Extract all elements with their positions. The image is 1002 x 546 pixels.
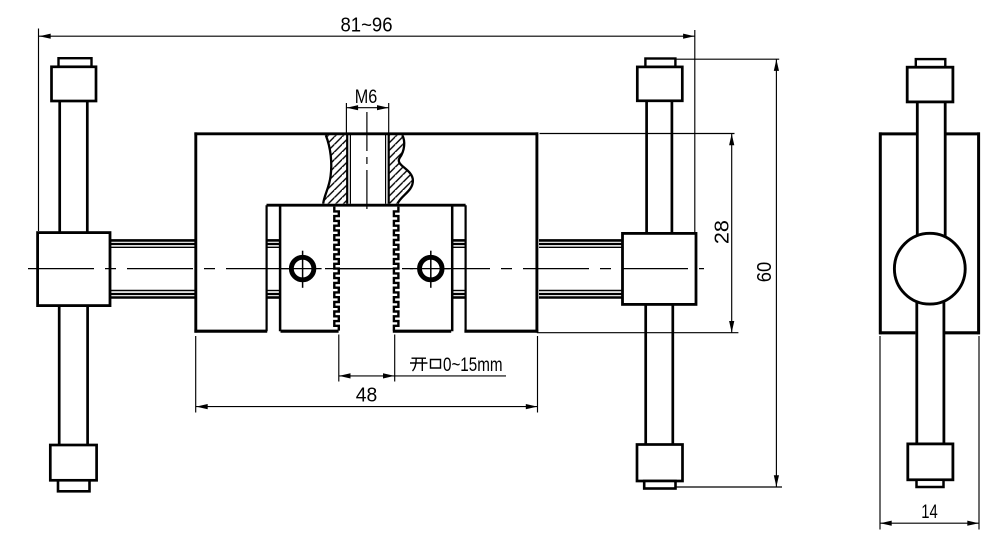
svg-text:0~15mm: 0~15mm <box>443 354 503 376</box>
svg-text:M6: M6 <box>355 87 378 108</box>
svg-text:60: 60 <box>754 262 776 283</box>
svg-text:81~96: 81~96 <box>341 15 393 37</box>
svg-text:14: 14 <box>921 502 938 523</box>
svg-text:28: 28 <box>711 220 733 244</box>
svg-text:48: 48 <box>356 384 378 406</box>
